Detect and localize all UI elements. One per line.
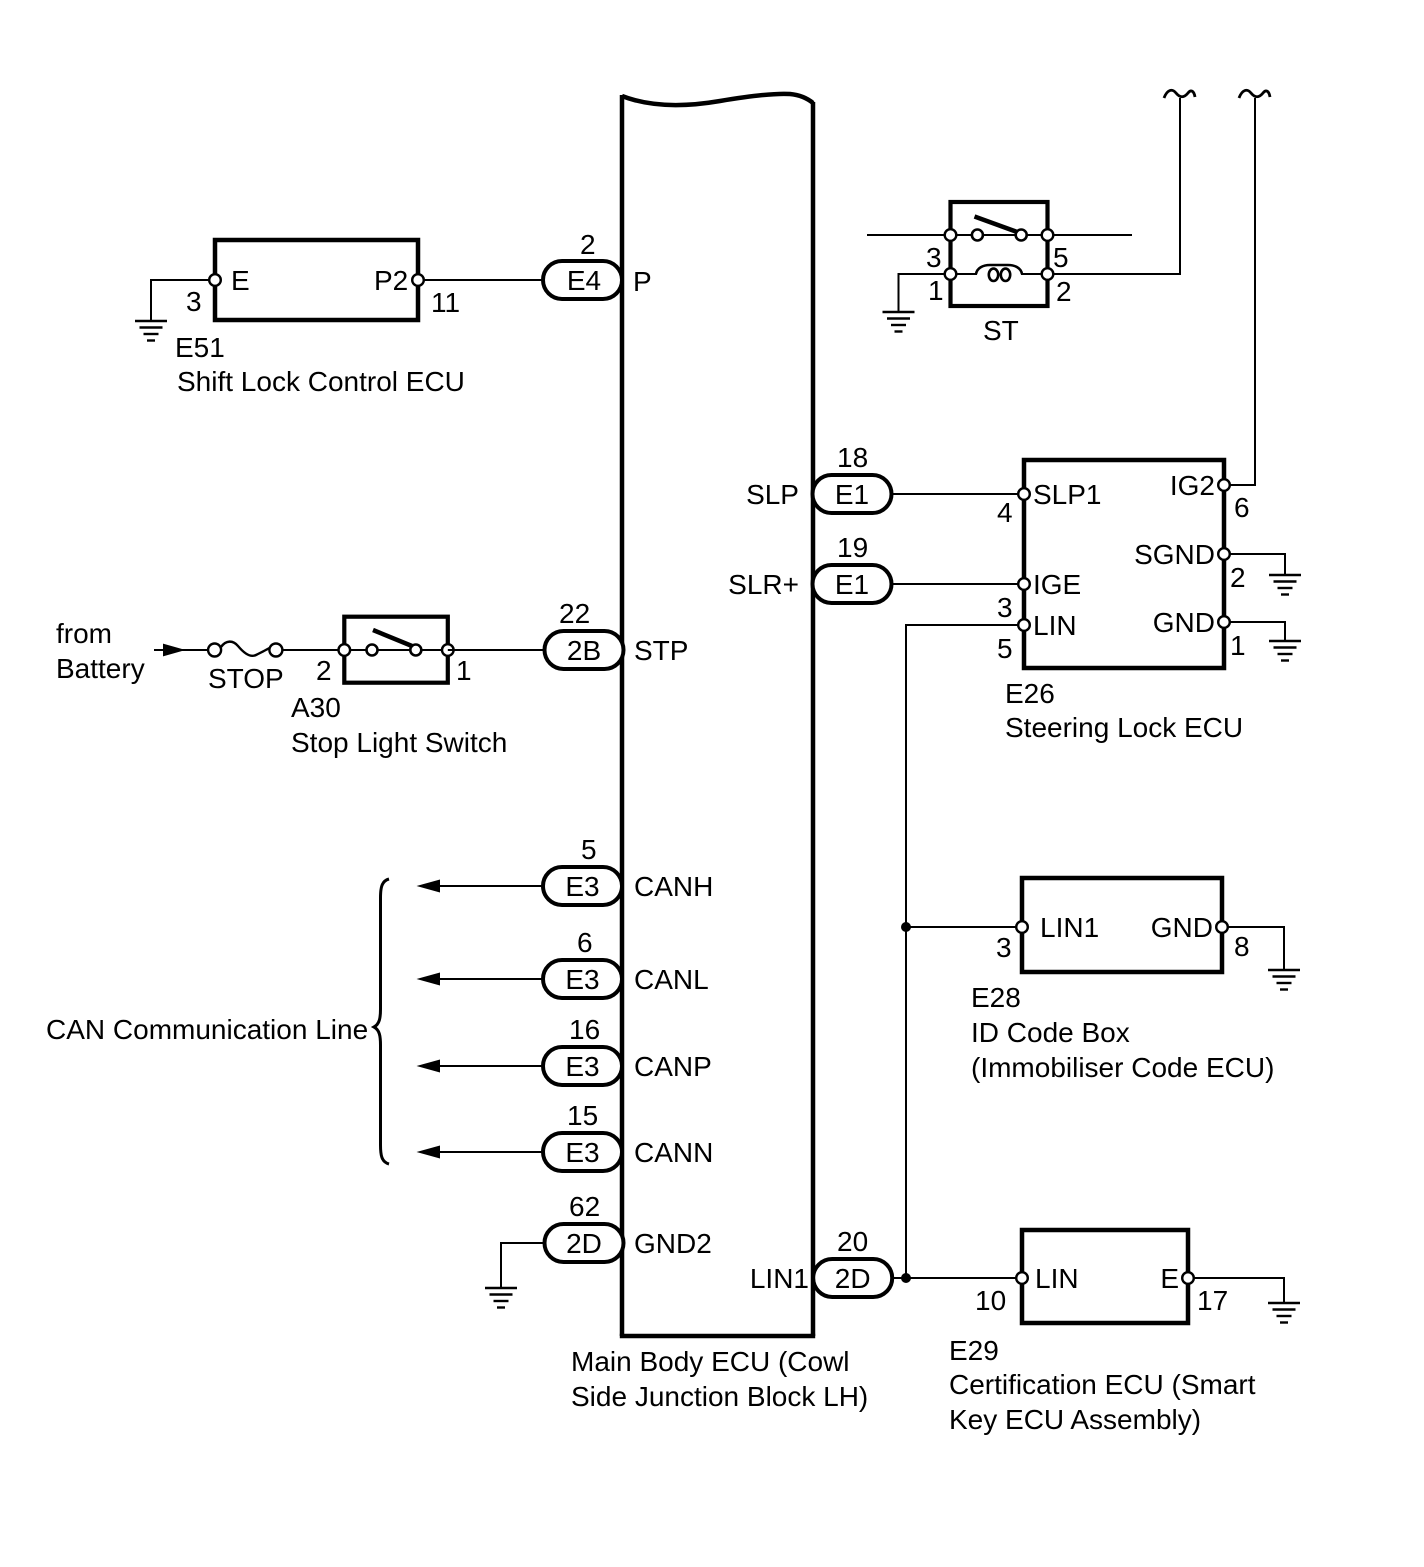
svg-text:3: 3: [186, 286, 202, 317]
wire LIN long vertical: [906, 625, 1024, 1278]
connector 2D pin 20: [813, 1226, 892, 1297]
wire GND2 to ground: [501, 1243, 545, 1288]
pin 5 (ST): [1042, 229, 1054, 241]
pin 17 (E29): [1182, 1272, 1194, 1284]
svg-text:19: 19: [837, 532, 868, 563]
svg-text:1: 1: [928, 275, 944, 306]
svg-text:3: 3: [997, 592, 1013, 623]
svg-text:6: 6: [1234, 492, 1250, 523]
svg-text:5: 5: [1053, 242, 1069, 273]
junction LIN1/2D: [901, 1273, 911, 1283]
wire ST pin1 to ground: [899, 274, 951, 312]
svg-text:Shift Lock Control ECU: Shift Lock Control ECU: [177, 366, 465, 397]
from Battery label: [56, 618, 145, 684]
svg-text:STOP: STOP: [208, 663, 284, 694]
svg-text:E3: E3: [565, 1051, 599, 1082]
coil (ST): [951, 265, 1048, 281]
switch contacts (A30): [367, 645, 378, 656]
svg-text:P2: P2: [374, 265, 408, 296]
svg-text:(Immobiliser Code ECU): (Immobiliser Code ECU): [971, 1052, 1274, 1083]
svg-text:Key ECU Assembly): Key ECU Assembly): [949, 1404, 1201, 1435]
wire 2D to E29 LIN: [892, 1277, 1022, 1279]
E26 label: [1005, 678, 1243, 743]
svg-text:2: 2: [1056, 276, 1072, 307]
svg-text:E1: E1: [835, 479, 869, 510]
svg-text:5: 5: [581, 834, 597, 865]
connector 2B pin 22: [545, 598, 624, 669]
svg-text:SGND: SGND: [1134, 539, 1215, 570]
connector 2D pin 62: [545, 1191, 624, 1262]
svg-text:ST: ST: [983, 315, 1019, 346]
svg-text:from: from: [56, 618, 112, 649]
E51 label: [175, 332, 465, 397]
svg-text:E1: E1: [835, 569, 869, 600]
svg-text:6: 6: [577, 927, 593, 958]
svg-text:E29: E29: [949, 1335, 999, 1366]
svg-text:E51: E51: [175, 332, 225, 363]
svg-text:Certification ECU (Smart: Certification ECU (Smart: [949, 1369, 1256, 1400]
ground (ST): [883, 312, 915, 332]
svg-text:3: 3: [926, 242, 942, 273]
svg-text:10: 10: [975, 1285, 1006, 1316]
pin 4 (E26): [1018, 488, 1030, 500]
wire E51 pin E to ground: [151, 280, 215, 321]
svg-text:SLP1: SLP1: [1033, 479, 1102, 510]
wire CANP arrow: [417, 1060, 544, 1073]
junction E28 branch: [901, 922, 911, 932]
svg-text:Stop Light Switch: Stop Light Switch: [291, 727, 507, 758]
svg-text:E3: E3: [565, 964, 599, 995]
svg-text:IGE: IGE: [1033, 569, 1081, 600]
svg-text:2D: 2D: [835, 1263, 871, 1294]
svg-text:17: 17: [1197, 1285, 1228, 1316]
A30 label: [291, 692, 507, 758]
pin 3 (E26): [1018, 578, 1030, 590]
wire E29 E to ground: [1188, 1278, 1284, 1303]
svg-text:Side Junction Block LH): Side Junction Block LH): [571, 1381, 868, 1412]
pin 2 (ST): [1042, 268, 1054, 280]
switch contacts (ST): [972, 230, 983, 241]
svg-text:LIN: LIN: [1033, 610, 1077, 641]
svg-text:Main Body ECU (Cowl: Main Body ECU (Cowl: [571, 1346, 850, 1377]
wire GND to ground: [1224, 622, 1285, 641]
svg-text:E: E: [231, 265, 250, 296]
connector E3 pin 6: [543, 927, 622, 998]
connector E1 pin 19: [813, 532, 892, 603]
ground (SGND): [1269, 575, 1301, 595]
svg-text:1: 1: [456, 655, 472, 686]
svg-text:IG2: IG2: [1170, 470, 1215, 501]
connector E3 pin 15: [543, 1100, 622, 1171]
E51 Shift Lock Control ECU box: [215, 240, 418, 320]
svg-text:A30: A30: [291, 692, 341, 723]
svg-text:2B: 2B: [567, 635, 601, 666]
wire IG2 vertical to break: [1224, 98, 1255, 485]
svg-text:E3: E3: [565, 871, 599, 902]
svg-text:16: 16: [569, 1014, 600, 1045]
svg-text:SLP: SLP: [746, 479, 799, 510]
pin 5 (E26): [1018, 619, 1030, 631]
wire A30 inner: [344, 649, 448, 651]
svg-text:11: 11: [431, 287, 460, 318]
connector E1 pin 18: [813, 442, 892, 513]
svg-text:LIN1: LIN1: [1040, 912, 1099, 943]
svg-text:GND: GND: [1153, 607, 1215, 638]
svg-text:4: 4: [997, 497, 1013, 528]
svg-text:CANH: CANH: [634, 871, 713, 902]
svg-text:3: 3: [996, 932, 1012, 963]
svg-text:18: 18: [837, 442, 868, 473]
svg-text:LIN: LIN: [1035, 1263, 1079, 1294]
connector E3 pin 16: [543, 1014, 622, 1085]
svg-text:E4: E4: [567, 265, 601, 296]
pin 10 (E29): [1016, 1272, 1028, 1284]
pin 2 (E26): [1218, 548, 1230, 560]
break symbol right: [1239, 90, 1270, 98]
svg-text:E26: E26: [1005, 678, 1055, 709]
wire E1 to SLP1: [892, 493, 1025, 495]
connector E4 pin 2: [543, 229, 622, 299]
E28 ID Code Box: [1022, 878, 1222, 972]
wire ST row1 right: [1048, 234, 1133, 236]
brace: [374, 879, 389, 1164]
svg-text:ID Code Box: ID Code Box: [971, 1017, 1130, 1048]
Main Body ECU label: [571, 1346, 868, 1412]
pin 1 (E26): [1218, 616, 1230, 628]
wire CANH arrow: [417, 880, 544, 893]
E29 label: [949, 1335, 1256, 1435]
pin 8 (E28): [1216, 921, 1228, 933]
stop light switch A30 box: [344, 617, 448, 683]
svg-text:SLR+: SLR+: [728, 569, 799, 600]
svg-text:2: 2: [580, 229, 596, 260]
ground (GND2): [485, 1288, 517, 1308]
pin 1 (ST): [945, 268, 957, 280]
battery feed arrow: [154, 644, 208, 657]
svg-text:E28: E28: [971, 982, 1021, 1013]
svg-text:CANL: CANL: [634, 964, 709, 995]
svg-text:E3: E3: [565, 1137, 599, 1168]
pin 3 (E28): [1016, 921, 1028, 933]
svg-text:GND: GND: [1151, 912, 1213, 943]
wire ST pin2 up to break: [1048, 98, 1181, 274]
wire E51 P2 to E4: [418, 279, 543, 281]
connector E3 pin 5: [543, 834, 622, 905]
pin 11 (E51): [412, 274, 424, 286]
relay ST box: [951, 202, 1048, 306]
svg-text:2: 2: [316, 655, 332, 686]
wire ST row1 left: [867, 234, 951, 236]
svg-text:Steering Lock ECU: Steering Lock ECU: [1005, 712, 1243, 743]
E29 Certification ECU box: [1022, 1230, 1188, 1323]
fuse STOP: [208, 642, 284, 694]
ground (E51): [135, 321, 167, 341]
wire CANN arrow: [417, 1146, 544, 1159]
svg-text:20: 20: [837, 1226, 868, 1257]
ground (E29): [1268, 1303, 1300, 1323]
wire LIN branch to E28: [906, 926, 1022, 928]
svg-text:GND2: GND2: [634, 1228, 712, 1259]
wire E1 to IGE: [892, 583, 1025, 585]
svg-text:CAN Communication Line: CAN Communication Line: [46, 1014, 368, 1045]
pin 3 (E51): [209, 274, 221, 286]
E26 Steering Lock ECU box: [1024, 460, 1224, 668]
svg-text:LIN1: LIN1: [750, 1263, 809, 1294]
svg-text:E: E: [1160, 1263, 1179, 1294]
svg-text:2D: 2D: [566, 1228, 602, 1259]
svg-text:P: P: [633, 266, 652, 297]
pin 6 (E26): [1218, 479, 1230, 491]
wire A30 to 2B: [448, 649, 543, 651]
pin 1 (A30): [442, 644, 454, 656]
E28 label: [971, 982, 1274, 1083]
svg-text:2: 2: [1230, 562, 1246, 593]
svg-text:Battery: Battery: [56, 653, 145, 684]
svg-text:1: 1: [1230, 630, 1246, 661]
wire CANL arrow: [417, 973, 544, 986]
svg-text:22: 22: [559, 598, 590, 629]
wire SGND to ground: [1224, 554, 1285, 575]
wire E28 GND to ground: [1222, 927, 1284, 970]
svg-text:15: 15: [567, 1100, 598, 1131]
svg-text:CANN: CANN: [634, 1137, 713, 1168]
svg-text:STP: STP: [634, 635, 688, 666]
svg-text:8: 8: [1234, 931, 1250, 962]
ground (E28): [1268, 970, 1300, 990]
Main Body ECU box: [620, 94, 815, 1336]
pin 3 (ST): [945, 229, 957, 241]
svg-text:62: 62: [569, 1191, 600, 1222]
svg-text:CANP: CANP: [634, 1051, 712, 1082]
switch blade (ST): [975, 217, 1019, 233]
ground (E26 GND): [1269, 641, 1301, 661]
wire fuse to A30: [282, 649, 344, 651]
pin 2 (A30): [339, 644, 351, 656]
switch blade (A30): [373, 630, 412, 646]
svg-text:5: 5: [997, 633, 1013, 664]
wire ST row1 inner: [951, 234, 1048, 236]
break symbol left: [1164, 90, 1195, 98]
